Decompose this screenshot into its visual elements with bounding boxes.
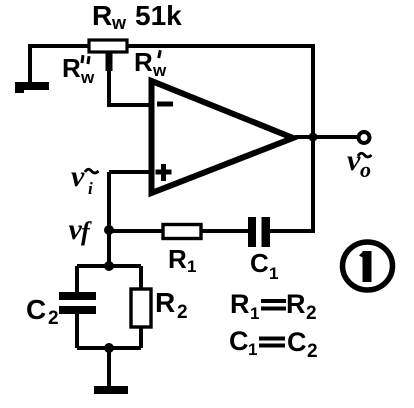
wire right branch down to R2 bbox=[139, 266, 143, 290]
svg-text:w: w bbox=[152, 61, 167, 80]
capacitor C2 bbox=[59, 292, 96, 314]
svg-text:R: R bbox=[62, 53, 81, 83]
svg-text:R: R bbox=[155, 287, 175, 318]
capacitor C1 bbox=[248, 217, 270, 247]
svg-text:R: R bbox=[286, 289, 306, 319]
svg-text:2: 2 bbox=[306, 303, 317, 324]
wire wiper down and to op-amp inverting input bbox=[109, 70, 150, 105]
label Rw 51k bbox=[92, 0, 182, 33]
svg-text:o: o bbox=[360, 157, 371, 182]
svg-text:v: v bbox=[71, 160, 85, 193]
label equation C1 = C2 bbox=[229, 326, 318, 362]
svg-text:R: R bbox=[134, 47, 153, 77]
wire non-inverting input horizontal bbox=[109, 170, 151, 174]
wire parallel network bottom rail bbox=[77, 346, 141, 350]
wire pot right terminal to top-right corner and down to output node bbox=[127, 46, 313, 137]
node junction top of parallel RC bbox=[104, 261, 114, 271]
wire from vi down through vf to parallel network bbox=[107, 172, 111, 266]
wire output to terminal bbox=[295, 135, 358, 139]
wire C2 bottom to bottom rail bbox=[75, 314, 79, 348]
node output junction bbox=[309, 133, 318, 142]
wire left branch down to C2 bbox=[75, 266, 79, 293]
label vf bbox=[69, 213, 93, 246]
node vf junction bbox=[104, 225, 114, 235]
wire vf to R1 bbox=[109, 229, 163, 233]
svg-text:1: 1 bbox=[250, 304, 259, 323]
wire top-left horizontal from ground branch to potentiometer bbox=[30, 46, 90, 84]
resistor R2 bbox=[131, 289, 151, 327]
node vi label bbox=[71, 160, 99, 198]
label Rw' (right part of pot) bbox=[134, 47, 167, 80]
svg-text:1: 1 bbox=[248, 340, 257, 359]
svg-text:C: C bbox=[287, 327, 307, 357]
svg-text:R: R bbox=[230, 289, 250, 319]
label vo bbox=[347, 144, 372, 182]
label Rw'' (left part of pot) bbox=[62, 53, 95, 87]
svg-text:C: C bbox=[250, 248, 269, 278]
svg-text:R: R bbox=[92, 0, 112, 31]
node junction bottom of parallel RC bbox=[104, 343, 114, 353]
svg-text:C: C bbox=[26, 294, 46, 325]
svg-text:2: 2 bbox=[307, 341, 318, 362]
op-amp U1 bbox=[152, 81, 294, 193]
svg-text:51k: 51k bbox=[135, 0, 182, 31]
label equation R1 = R2 bbox=[230, 289, 317, 324]
svg-text:v: v bbox=[347, 144, 361, 177]
ground (bottom) bbox=[94, 386, 128, 394]
resistor R1 bbox=[163, 225, 201, 239]
ground (top left) bbox=[15, 82, 49, 90]
wire R1 to C1 bbox=[201, 229, 248, 233]
svg-text:2: 2 bbox=[48, 308, 59, 329]
svg-text:2: 2 bbox=[177, 302, 188, 323]
svg-text:w: w bbox=[111, 13, 127, 33]
svg-text:w: w bbox=[80, 68, 95, 87]
potentiometer Rw bbox=[89, 40, 127, 71]
label R1 bbox=[168, 244, 196, 276]
svg-text:1: 1 bbox=[269, 264, 278, 283]
terminal vo bbox=[359, 132, 370, 143]
label C2 bbox=[26, 294, 59, 329]
wire parallel network top rail bbox=[77, 264, 141, 268]
svg-text:R: R bbox=[168, 244, 187, 274]
svg-text:1: 1 bbox=[187, 257, 196, 276]
wire R2 bottom to bottom rail bbox=[139, 327, 143, 348]
svg-text:C: C bbox=[229, 326, 249, 356]
wire down to ground bbox=[107, 348, 111, 387]
figure number 1 (circled) bbox=[343, 242, 393, 290]
svg-text:i: i bbox=[88, 179, 93, 198]
label R2 bbox=[155, 287, 188, 323]
wire C1 to output branch bbox=[270, 137, 313, 231]
label C1 bbox=[250, 248, 278, 283]
